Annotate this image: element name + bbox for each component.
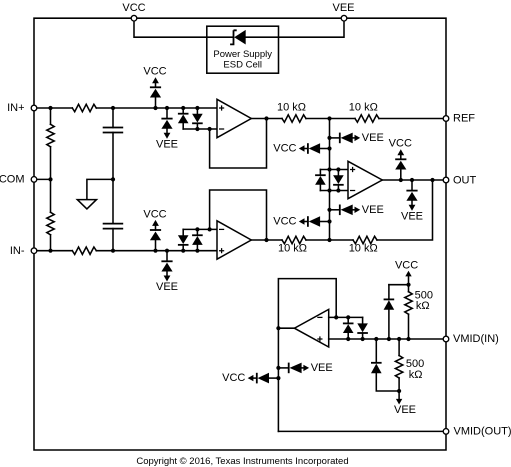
svg-text:VCC: VCC xyxy=(122,2,145,14)
diode D19 VMID to VCC xyxy=(384,285,395,339)
label kΩ lower xyxy=(409,369,423,381)
node U2 output junction xyxy=(264,238,268,242)
node D5 junction xyxy=(153,249,157,253)
label IN- xyxy=(10,245,25,257)
node IN+ chain junction xyxy=(48,106,52,110)
wire VCC stub down to ESD rail xyxy=(134,18,234,37)
diode D12 antiparallel right (op3) xyxy=(333,170,344,191)
terminal OUT xyxy=(443,177,449,183)
node op3 minus rail junction xyxy=(327,188,331,192)
op-amp U4 xyxy=(294,309,328,347)
wire cap column middle xyxy=(112,133,114,224)
svg-text:10 kΩ: 10 kΩ xyxy=(277,101,306,113)
power supply ESD cell box xyxy=(207,26,279,73)
label ESD Cell xyxy=(223,60,262,71)
label VCC top xyxy=(122,2,145,14)
wire R3 to R4 xyxy=(306,239,353,241)
label COM xyxy=(0,173,25,185)
wire op1 minus rail xyxy=(183,128,217,130)
node op1 feedback junction xyxy=(208,127,212,131)
diode D14 clamp to VCC (op3 - input) xyxy=(273,216,329,228)
node D18 bottom junction xyxy=(361,337,365,341)
node R6 bottom junction xyxy=(397,389,401,393)
svg-text:10 kΩ: 10 kΩ xyxy=(278,243,307,255)
diode D10 clamp to VCC (op3 + input) xyxy=(273,143,329,155)
node D16 junction xyxy=(410,178,414,182)
node D8 top junction xyxy=(195,227,199,231)
diode D8 antiparallel right (op2) xyxy=(192,229,203,250)
wire op3 plus rail xyxy=(320,169,348,171)
label R4 10 kΩ xyxy=(349,243,378,255)
node IN- chain junction xyxy=(48,249,52,253)
svg-text:VCC: VCC xyxy=(389,138,412,150)
node cap column at IN- xyxy=(111,249,115,253)
arrow to VEE (VMID pulldown) xyxy=(396,391,402,405)
svg-text:VCC: VCC xyxy=(143,208,166,220)
node U1 output junction xyxy=(264,116,268,120)
node D14 junction xyxy=(327,219,331,223)
wire central column xyxy=(329,119,331,241)
wire op2 minus rail xyxy=(183,228,217,230)
op-amp U1 xyxy=(217,99,251,137)
svg-text:VEE: VEE xyxy=(401,210,423,222)
wire U4 output column xyxy=(277,328,279,431)
svg-text:Copyright © 2016, Texas Instru: Copyright © 2016, Texas Instruments Inco… xyxy=(136,456,348,467)
label VEE top xyxy=(332,2,354,14)
node cap column at IN+ xyxy=(111,106,115,110)
node op3 plus rail junction xyxy=(327,167,331,171)
node D12 top junction xyxy=(336,167,340,171)
terminal REF xyxy=(443,116,449,122)
wire COM line xyxy=(34,178,51,180)
wire IN+ line right xyxy=(96,107,217,109)
svg-text:Power Supply: Power Supply xyxy=(213,49,272,60)
diode D17 antiparallel left (op4) xyxy=(343,317,354,339)
resistor R6 500k lower xyxy=(395,339,402,391)
wire op4 minus rail xyxy=(329,316,363,318)
svg-text:VEE: VEE xyxy=(156,281,178,293)
node D10 junction xyxy=(327,146,331,150)
wire divider chain upper xyxy=(50,108,52,124)
wire U4 output xyxy=(278,327,294,329)
diode D2 IN+ to VEE xyxy=(156,108,178,150)
label IN+ xyxy=(7,102,24,114)
svg-text:kΩ: kΩ xyxy=(416,300,430,312)
capacitor C2 xyxy=(103,224,124,229)
wire U4 feedback xyxy=(278,279,336,329)
diode D13 clamp to VEE (op3 - input) xyxy=(330,204,384,216)
wire IN- line right xyxy=(96,250,217,252)
terminal VCC xyxy=(131,15,137,21)
wire R4 to OUT riser xyxy=(377,180,433,240)
node R6 top junction xyxy=(397,337,401,341)
node op2 feedback junction xyxy=(208,227,212,231)
svg-text:VCC: VCC xyxy=(273,216,296,228)
diode D11 antiparallel left (op3) xyxy=(315,170,326,191)
outer boundary box xyxy=(34,18,446,450)
label VEE (VMID pulldown) xyxy=(394,404,416,416)
node U4 output junction xyxy=(276,326,280,330)
node D1 junction xyxy=(153,106,157,110)
terminal IN+ xyxy=(31,105,37,111)
diode D1 IN+ to VCC xyxy=(143,66,166,108)
terminal VMID(OUT) xyxy=(443,429,449,435)
wire U3 output to OUT xyxy=(382,179,446,181)
diode D6 IN- to VEE xyxy=(156,251,178,293)
label OUT xyxy=(453,174,477,186)
op-amp U2 xyxy=(217,221,251,259)
label Power Supply xyxy=(213,49,272,60)
terminal VMID(IN) xyxy=(443,336,449,342)
node COM chain junction xyxy=(48,177,52,181)
label kΩ upper xyxy=(416,300,430,312)
wire VEE stub down to ESD rail xyxy=(246,18,344,37)
svg-text:ESD Cell: ESD Cell xyxy=(223,60,262,71)
node D17 top junction xyxy=(346,315,350,319)
node R3-R4 junction xyxy=(327,238,331,242)
resistor R4 10k xyxy=(353,236,377,243)
diode D9 clamp to VEE (op3 + input) xyxy=(330,132,384,144)
wire U1 output xyxy=(251,118,282,120)
svg-text:VEE: VEE xyxy=(394,404,416,416)
label 500 lower xyxy=(406,358,424,370)
svg-text:VEE: VEE xyxy=(156,138,178,150)
node D20 junction xyxy=(374,337,378,341)
wire VMID(OUT) line xyxy=(278,430,446,432)
svg-text:kΩ: kΩ xyxy=(409,369,423,381)
svg-text:REF: REF xyxy=(453,113,475,125)
svg-text:VEE: VEE xyxy=(362,132,384,144)
resistor R_div lower xyxy=(47,212,54,235)
node D8 bottom junction xyxy=(195,249,199,253)
svg-text:COM: COM xyxy=(0,173,25,185)
label 500 upper xyxy=(415,290,433,302)
node R5 bottom junction xyxy=(406,337,410,341)
node D7 bottom junction xyxy=(181,249,185,253)
resistor R_div upper xyxy=(47,124,54,147)
wire R2 to REF xyxy=(379,118,446,120)
label REF xyxy=(453,113,475,125)
wire VMID(IN) line xyxy=(329,338,446,340)
resistor R3 10k xyxy=(282,236,306,243)
terminal IN- xyxy=(31,248,37,254)
node D9 junction xyxy=(327,136,331,140)
svg-text:VCC: VCC xyxy=(222,372,245,384)
diode D21 clamp to VEE (U4 out) xyxy=(278,362,332,374)
svg-text:VEE: VEE xyxy=(332,2,354,14)
node R5 top junction xyxy=(406,283,410,287)
arrow to VCC (VMID pullup) xyxy=(405,271,411,285)
op-amp U3 xyxy=(348,161,382,198)
node OUT riser junction xyxy=(430,178,434,182)
ESD cell diode D_esd xyxy=(234,30,246,45)
node D6 junction xyxy=(165,249,169,253)
svg-text:VCC: VCC xyxy=(395,260,418,272)
svg-text:VEE: VEE xyxy=(311,362,333,374)
wire VCC junction to diode branch xyxy=(389,284,409,286)
wire U2 feedback xyxy=(210,190,267,240)
svg-text:10 kΩ: 10 kΩ xyxy=(349,243,378,255)
diode D7 antiparallel left (op2) xyxy=(178,229,189,250)
ESD cell diode D_esd cathode bar xyxy=(230,30,237,44)
node D15 junction xyxy=(399,178,403,182)
wire cap column lower xyxy=(112,229,114,251)
label VMID(OUT) xyxy=(454,425,511,437)
node D4 top junction xyxy=(195,106,199,110)
node D21 junction xyxy=(276,366,280,370)
terminal VEE xyxy=(341,15,347,21)
diode D16 OUT to VEE xyxy=(401,180,423,222)
svg-text:VCC: VCC xyxy=(143,66,166,78)
wire ground tap xyxy=(87,179,113,199)
resistor R2 10k xyxy=(355,115,379,122)
node D17 bottom junction xyxy=(346,337,350,341)
label R1 10 kΩ xyxy=(277,101,306,113)
resistor R5 500k upper xyxy=(405,285,412,339)
diode D15 OUT to VCC xyxy=(389,138,412,180)
node ground tap junction xyxy=(111,177,115,181)
diode D5 IN- to VCC xyxy=(143,208,166,250)
wire divider chain lower xyxy=(50,235,52,251)
resistor R_in- series xyxy=(72,247,96,254)
node REF column junction xyxy=(327,116,331,120)
node D13 junction xyxy=(327,208,331,212)
node D2 junction xyxy=(165,106,169,110)
wire op3 minus rail xyxy=(320,190,348,192)
resistor R1 10k xyxy=(282,115,306,122)
svg-text:VMID(IN): VMID(IN) xyxy=(453,333,499,345)
wire U2 output xyxy=(251,239,282,241)
diode D4 antiparallel right (op1) xyxy=(192,108,203,129)
wire U1 feedback xyxy=(210,119,267,169)
diode D20 VMID to VEE xyxy=(371,339,399,391)
svg-text:VMID(OUT): VMID(OUT) xyxy=(454,425,511,437)
resistor R_in+ series xyxy=(72,104,96,111)
svg-text:VCC: VCC xyxy=(273,143,296,155)
node D4 bottom junction xyxy=(195,127,199,131)
svg-text:IN-: IN- xyxy=(10,245,25,257)
wire R1 to R2 xyxy=(306,118,355,120)
node D22 junction xyxy=(276,376,280,380)
wire cap column upper xyxy=(112,108,114,128)
svg-text:IN+: IN+ xyxy=(7,102,24,114)
node D12 bottom junction xyxy=(336,188,340,192)
diode D3 antiparallel left (op1) xyxy=(178,108,189,129)
wire divider chain middle xyxy=(50,147,52,213)
label R3 10 kΩ xyxy=(278,243,307,255)
node D19 junction xyxy=(387,337,391,341)
svg-text:OUT: OUT xyxy=(453,174,477,186)
label R2 10 kΩ xyxy=(349,101,378,113)
label VCC (VMID pullup) xyxy=(395,260,418,272)
label VMID(IN) xyxy=(453,333,499,345)
wire IN- line left xyxy=(34,250,72,252)
svg-text:10 kΩ: 10 kΩ xyxy=(349,101,378,113)
terminal COM xyxy=(31,177,37,183)
svg-text:VEE: VEE xyxy=(362,204,384,216)
node D3 top junction xyxy=(181,106,185,110)
ground xyxy=(77,200,96,209)
wire IN+ line left xyxy=(34,107,72,109)
node op4 feedback junction xyxy=(334,315,338,319)
copyright notice xyxy=(136,456,348,467)
diode D22 clamp to VCC (U4 out) xyxy=(222,372,278,384)
diode D18 antiparallel right (op4) xyxy=(357,317,368,339)
capacitor C1 xyxy=(103,128,124,133)
